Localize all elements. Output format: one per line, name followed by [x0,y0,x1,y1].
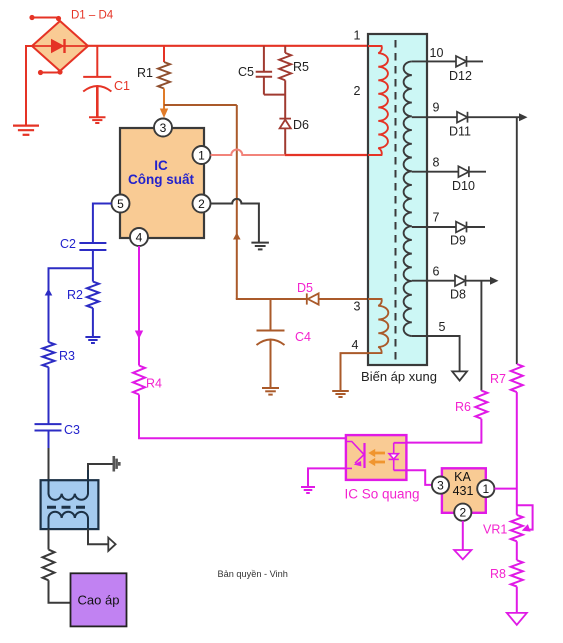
wire D5 to transformer pin3 [319,298,368,300]
Cao ap box [71,573,127,626]
svg-text:D12: D12 [449,69,472,83]
label R7 [490,372,506,386]
VR1 wiper [517,505,533,529]
label D10 [452,179,475,193]
bridge AC input lead bottom [38,69,63,75]
label R3 [59,349,75,363]
transformer pin label 1 [354,29,361,43]
resistor R8 [511,560,523,586]
transformer primary winding pins 1-2 [368,46,388,155]
svg-text:431: 431 [453,484,474,498]
KA431 pin 1 [477,480,494,497]
diode D10 [458,166,469,177]
label D6 [293,118,309,132]
svg-text:4: 4 [136,230,143,244]
transformer pin label 3 [354,300,361,314]
transformer Bien ap xung body [368,34,427,365]
wire tap 5 to arrow [412,336,460,371]
wire VR1 to R8 [516,541,518,560]
wire tap 9 [412,116,520,118]
svg-text:D8: D8 [450,288,466,302]
transformer sec pin label 10 [430,46,444,60]
svg-text:Biến áp xung: Biến áp xung [361,369,437,384]
svg-text:KA: KA [454,470,471,484]
wire bridge left to ground [26,46,32,126]
transformer pin label 2 [354,84,361,98]
wire KA431 pin1 to divider [494,488,516,490]
potentiometer VR1 [511,515,523,541]
wire R3 to C3 [48,367,50,424]
wire R7 down to KA431 node [516,392,518,515]
wire pin4 down [138,246,140,366]
arrow output 9 [519,113,528,121]
diode D8 [455,275,466,286]
diode D5 [307,293,319,304]
KA431 pin 3 [432,477,449,494]
wire rail to R5 [284,46,286,53]
wire R8 to terminal [516,587,518,613]
wire C2 to junction [92,250,94,282]
ground mains left [13,126,39,135]
arrow down R4 wire [135,331,143,340]
wire R1 to pin3 [163,89,165,110]
resistor R3 [43,342,55,367]
wire pin5 to C2 [93,204,112,244]
svg-text:D5: D5 [297,281,313,295]
wire opto cathode to ground [308,468,346,487]
svg-text:C1: C1 [114,79,130,93]
transformer sec pin label 8 [433,156,440,170]
transformer sec pin label 9 [433,101,440,115]
IC pin 2 [193,195,211,213]
wire to Cao ap [49,580,71,602]
svg-text:5: 5 [439,320,446,334]
label VR1 [483,523,507,537]
svg-text:3: 3 [160,121,167,135]
ground IC pin2 [251,243,269,250]
capacitor C1 [83,46,111,117]
svg-text:D9: D9 [450,234,466,248]
ground C4 [262,388,279,395]
label R8 [490,567,506,581]
wire R6 down to opto [406,419,481,443]
bridge rectifier D1-D4 [32,21,88,71]
svg-text:3: 3 [354,300,361,314]
svg-text:1: 1 [482,482,489,496]
wire aux to D5 [236,298,306,300]
svg-text:R3: R3 [59,349,75,363]
svg-text:C4: C4 [295,330,311,344]
opto IC So quang body [346,435,407,480]
svg-text:2: 2 [198,197,205,211]
svg-text:9: 9 [433,101,440,115]
label IC So quang [344,487,419,502]
wire C3 down [48,431,50,451]
wire transformer pin4 to ground [341,353,369,391]
opto photodiode [389,443,407,471]
wire tap 8 [412,171,486,173]
wire output6 down to R6 [480,281,482,391]
transformer pin label 4 [352,338,359,352]
wire KA431 pin2 down [462,521,464,550]
label C2 [60,237,76,251]
svg-text:R7: R7 [490,372,506,386]
KA431 body [442,468,486,513]
output terminal pin5 [452,371,467,380]
wire opto to KA431 ref [406,470,432,485]
svg-text:Bản quyền - Vinh: Bản quyền - Vinh [218,569,288,579]
diode D6 [279,119,291,155]
svg-text:7: 7 [433,211,440,225]
svg-text:C2: C2 [60,237,76,251]
svg-text:2: 2 [459,506,466,520]
label KA431 [453,470,474,498]
wire D6 node to transformer pin2 [285,154,368,156]
svg-text:1: 1 [354,29,361,43]
wire R2 to ground [92,308,94,337]
svg-text:C5: C5 [238,65,254,79]
svg-text:5: 5 [117,197,124,211]
svg-text:C3: C3 [64,423,80,437]
resistor R1 [158,62,170,89]
wire tap 6 [412,280,491,282]
arrow up left branch [45,289,53,296]
drive transformer top winding [49,464,89,500]
arrow output 6 [490,277,499,285]
wire tap 7 [412,226,485,228]
svg-text:Cao áp: Cao áp [78,593,120,608]
svg-text:R5: R5 [293,60,309,74]
wire R5 to D6 [284,80,286,118]
drive transformer core dashes [47,506,89,509]
diode D11 [457,112,468,123]
wire R4 to opto [139,395,346,439]
transformer sec pin label 5 [439,320,446,334]
IC Cong suat body [120,128,204,238]
wire bottom-left down [48,529,50,550]
label D1-D4 [71,10,114,22]
svg-text:3: 3 [437,478,444,492]
label R6 [455,400,471,414]
transformer core dashed [395,40,397,360]
label IC Cong suat [128,158,195,187]
svg-text:R2: R2 [67,288,83,302]
wire bottom-right to output arrow [88,529,108,544]
label C3 [64,423,80,437]
drive transformer bottom winding [49,512,89,529]
transformer secondary winding [404,61,412,336]
drive transformer body [41,480,99,529]
label R2 [67,288,83,302]
wire into drive transformer [48,448,50,481]
svg-text:D6: D6 [293,118,309,132]
label D11 [449,125,471,139]
transformer aux winding pins 3-4 [368,299,388,353]
svg-text:6: 6 [433,265,440,279]
bridge AC input lead top [29,15,61,21]
IC pin 5 [112,195,130,213]
capacitor C3 [35,424,62,430]
wire brown vertical [236,105,238,299]
capacitor C2 [79,243,106,250]
resistor R5 [279,53,291,80]
label C4 [295,330,311,344]
terminal below R8 [507,613,527,625]
right output terminal [108,538,115,551]
IC pin 4 [130,228,148,246]
svg-text:IC: IC [154,158,168,173]
ground R2 [85,337,100,343]
svg-text:D11: D11 [449,125,471,139]
label R4 [146,377,162,391]
ground opto [301,487,315,493]
wire R1 junction to vertical [164,104,237,106]
svg-text:1: 1 [198,148,205,162]
terminal KA431 pin2 [454,550,471,559]
label R1 [137,66,153,80]
resistor flyback [43,550,55,581]
label D5 [297,281,313,295]
ground pin4 [332,391,349,397]
transformer sec pin label 7 [433,211,440,225]
capacitor C5 [256,46,286,95]
label D9 [450,234,466,248]
VR1 wiper arrow [520,524,530,534]
watermark text [218,569,288,579]
svg-text:D1 – D4: D1 – D4 [71,10,114,22]
transformer sec pin label 6 [433,265,440,279]
resistor R4 [133,366,145,395]
svg-text:IC So quang: IC So quang [344,487,419,502]
label D8 [450,288,466,302]
svg-text:VR1: VR1 [483,523,507,537]
opto LED [346,442,365,469]
label Bien ap xung [361,369,437,384]
wire top-right to side ground [88,464,114,470]
svg-text:2: 2 [354,84,361,98]
diode D9 [456,222,467,233]
svg-text:4: 4 [352,338,359,352]
resistor R7 [511,364,523,392]
label D12 [449,69,472,83]
label C5 [238,65,254,79]
KA431 pin 2 [454,504,471,521]
label Cao ap [78,593,120,608]
diode D12 [456,56,467,67]
opto LED arrow [354,459,363,467]
arrow up on aux wire [233,233,241,240]
svg-text:R6: R6 [455,400,471,414]
svg-text:R4: R4 [146,377,162,391]
svg-text:D10: D10 [452,179,475,193]
wire DC+ rail [88,45,368,47]
ground C1 [89,117,106,123]
wire junction left branch [49,268,93,342]
svg-text:R8: R8 [490,567,506,581]
label C1 [114,79,130,93]
resistor R6 [475,391,487,419]
svg-text:Công suất: Công suất [128,172,195,187]
svg-text:R1: R1 [137,66,153,80]
side ground symbol [114,456,120,472]
label R5 [293,60,309,74]
svg-text:8: 8 [433,156,440,170]
IC pin 1 [193,146,211,164]
svg-text:10: 10 [430,46,444,60]
opto light arrows [368,449,385,466]
arrow into pin3 [160,109,168,119]
wire output9 down to R7 [516,117,518,364]
wire pin2 to ground (with hop) [211,199,259,243]
wire rail to R1 [163,46,165,62]
IC pin 3 [154,119,172,137]
resistor R2 [87,282,99,309]
capacitor C4 [257,299,285,388]
wire pin1 to D6 node (with hop) [211,150,285,155]
wire tap 10 [412,60,483,62]
